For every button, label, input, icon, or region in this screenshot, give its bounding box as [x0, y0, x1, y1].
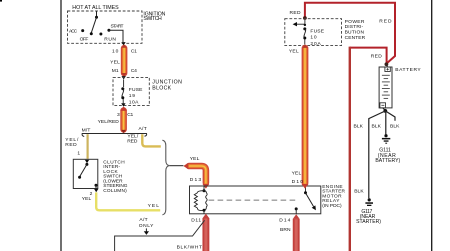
svg-text:YEL: YEL	[190, 156, 200, 162]
wire YEL/RED drop to clutch switch (M/T branch)	[86, 134, 88, 159]
relay coil top node	[203, 189, 206, 192]
wire START output	[109, 30, 123, 42]
relay switch pivot node	[304, 191, 307, 194]
wire W5 BLK/WHT highlighted (D11 to starter)	[203, 214, 210, 251]
svg-text:D10: D10	[292, 179, 304, 185]
wire RED battery positive branch	[350, 48, 387, 63]
svg-text:BLK: BLK	[390, 124, 400, 130]
wire split line M/T - A/T	[82, 134, 147, 137]
PDC label	[345, 19, 366, 41]
clutch interlock switch label	[103, 160, 127, 194]
svg-text:C1: C1	[131, 49, 137, 55]
junction block dashed box	[113, 77, 149, 105]
power distribution center dashed box	[285, 19, 342, 46]
wire fuse19 bottom lead	[122, 99, 124, 103]
starter box (bottom, partial) with feed wire	[115, 220, 205, 251]
wire W3 YEL highlighted (to relay D13)	[183, 163, 209, 189]
ground G117 label	[356, 209, 381, 225]
ground G111 label	[375, 148, 400, 165]
clutch switch lower contact	[78, 176, 81, 179]
svg-text:D14: D14	[279, 217, 290, 223]
junction block label	[152, 79, 182, 91]
fuse 10 label	[310, 28, 324, 47]
svg-text:BRN: BRN	[280, 227, 291, 233]
svg-text:YEL/RED: YEL/RED	[98, 119, 120, 125]
left page border line	[60, 0, 62, 251]
wire YEL from clutch switch to brace	[96, 192, 160, 210]
svg-text:BATTERY): BATTERY)	[375, 158, 400, 164]
relay coil terminal D11 lead	[203, 210, 205, 214]
svg-text:BLOCK: BLOCK	[152, 86, 171, 92]
svg-text:A/T: A/T	[139, 126, 147, 132]
relay switch lever	[306, 193, 314, 206]
svg-text:ACC: ACC	[69, 29, 78, 34]
svg-text:(IN PDC): (IN PDC)	[322, 203, 342, 209]
wire W6 BRN highlighted (D14 down)	[293, 214, 300, 251]
svg-text:YEL/: YEL/	[65, 137, 79, 143]
clutch switch pin 2 contact	[95, 184, 98, 187]
ground G117	[365, 198, 373, 206]
svg-text:3: 3	[117, 112, 120, 118]
wire YEL/RED A/T branch L-drop	[142, 134, 161, 146]
svg-text:RED: RED	[379, 19, 392, 25]
svg-text:START: START	[111, 24, 124, 30]
arrowhead out of clutch switch pin 2	[94, 189, 98, 192]
ground G111	[382, 134, 390, 144]
label A/T ONLY	[139, 217, 154, 229]
corner mark	[0, 0, 2, 2]
svg-text:BUTION: BUTION	[345, 30, 365, 36]
wire BLK stub right	[385, 111, 395, 121]
ignition switch pivot node	[95, 16, 98, 19]
wire W4 YEL highlighted (fuse 10 to relay D10)	[302, 48, 309, 188]
label YEL/ RED (left)	[65, 137, 79, 148]
svg-text:COLUMN): COLUMN)	[103, 188, 127, 194]
contact RUN	[99, 33, 102, 36]
svg-text:YEL: YEL	[289, 49, 299, 55]
right page border line	[431, 0, 433, 251]
relay label	[322, 184, 345, 209]
svg-text:A/T: A/T	[139, 217, 147, 223]
arrowhead out of junction block	[121, 103, 125, 106]
svg-text:M/T: M/T	[82, 127, 91, 133]
svg-text:DISTRI-: DISTRI-	[345, 24, 364, 30]
svg-text:BLK: BLK	[354, 188, 364, 194]
wire W2 YEL/RED highlighted (fuse 19 to split)	[120, 106, 127, 129]
svg-text:RED: RED	[127, 138, 138, 144]
wire W1 YEL highlighted (ignition to junction block), pin 10 C1 to M1 C4	[121, 48, 128, 73]
fuse 19 label	[129, 87, 143, 105]
svg-text:YEL: YEL	[292, 170, 302, 176]
relay contact D14 lead	[295, 209, 297, 214]
fuse F10 bottom lead	[304, 40, 306, 45]
contact OFF	[90, 32, 93, 35]
clutch interlock switch box	[73, 159, 98, 188]
wire RED to starter (long vertical)	[349, 47, 351, 251]
svg-text:BLK/WHT: BLK/WHT	[177, 244, 202, 250]
relay switch lever arrowhead	[312, 205, 316, 210]
svg-text:ONLY: ONLY	[139, 223, 154, 229]
svg-text:STARTER): STARTER)	[356, 219, 381, 225]
engine starter motor relay box	[190, 186, 321, 214]
svg-text:BLK: BLK	[354, 124, 364, 130]
label YEL/ RED (right)	[127, 133, 139, 144]
wire BLK to G111	[385, 111, 387, 134]
relay coil terminal D13 lead	[203, 186, 205, 190]
arrowhead into C1	[121, 42, 125, 45]
arrowhead into clutch switch pin 1	[85, 160, 89, 164]
clutch switch top contact	[85, 163, 88, 166]
svg-text:C4: C4	[131, 68, 137, 74]
svg-text:RED: RED	[290, 10, 301, 16]
battery negative junction node	[383, 109, 387, 113]
svg-text:RED: RED	[65, 142, 77, 148]
battery positive junction node	[385, 62, 389, 66]
relay coil	[194, 191, 207, 211]
svg-text:D11: D11	[191, 217, 201, 223]
pin 2 lead	[95, 185, 97, 188]
svg-text:FUSE: FUSE	[310, 28, 324, 34]
ignition switch feed stub	[96, 11, 98, 16]
wire BLK to G117	[369, 111, 386, 198]
relay switch terminal D10 lead	[305, 186, 307, 192]
svg-text:20A: 20A	[310, 41, 321, 47]
wire W4 top tip	[302, 44, 307, 48]
svg-text:C1: C1	[127, 112, 133, 118]
wire fuse19 top lead	[123, 79, 125, 87]
arrowhead into M1/C4	[122, 76, 126, 79]
svg-text:CENTER: CENTER	[345, 35, 366, 41]
battery B1	[379, 65, 392, 108]
brace joining M/T and A/T branches	[162, 140, 169, 215]
contact ACC	[81, 29, 84, 32]
arrowhead wire W2 to split	[121, 130, 125, 133]
junction node above fuse 10	[303, 16, 307, 20]
svg-text:2: 2	[90, 191, 93, 197]
ignition switch label	[143, 12, 165, 23]
svg-text:JUNCTION: JUNCTION	[152, 79, 182, 85]
svg-text:1: 1	[77, 151, 80, 157]
clutch switch lever	[80, 164, 87, 176]
svg-text:BATTERY: BATTERY	[395, 67, 421, 73]
wire brace to relay coil	[170, 165, 184, 167]
svg-text:HOT AT ALL TIMES: HOT AT ALL TIMES	[72, 5, 119, 11]
svg-text:M1: M1	[112, 68, 119, 74]
svg-text:YEL: YEL	[110, 60, 120, 66]
wire W1 end tips	[122, 44, 127, 48]
svg-text:19: 19	[129, 93, 135, 99]
svg-text:RUN: RUN	[104, 37, 116, 43]
contact START	[107, 29, 110, 32]
svg-text:BLK: BLK	[372, 124, 382, 130]
svg-text:OFF: OFF	[80, 37, 89, 43]
A/T ONLY arrow	[144, 228, 149, 235]
svg-text:10: 10	[112, 49, 119, 55]
svg-text:YEL: YEL	[82, 196, 92, 202]
svg-text:POWER: POWER	[345, 19, 365, 25]
ignition switch lever (to OFF)	[91, 17, 96, 33]
svg-text:SWITCH: SWITCH	[143, 16, 162, 22]
relay switch contact D14 node	[295, 207, 298, 210]
wire battery negative lead	[383, 108, 386, 111]
svg-text:D13: D13	[190, 177, 202, 183]
svg-text:YEL: YEL	[148, 203, 160, 209]
fuse F10 element	[303, 24, 306, 40]
svg-text:10: 10	[310, 35, 316, 41]
svg-text:FUSE: FUSE	[129, 87, 143, 93]
svg-text:RED: RED	[371, 53, 382, 59]
PDC feed arrow	[293, 20, 305, 27]
relay coil bottom node	[203, 209, 206, 212]
svg-text:10A: 10A	[129, 99, 139, 105]
wire RED battery feed (top)	[305, 3, 395, 64]
relay internal dashed link	[209, 199, 296, 201]
ignition switch S1 dashed box	[68, 11, 143, 43]
fuse F19 element	[121, 87, 124, 99]
